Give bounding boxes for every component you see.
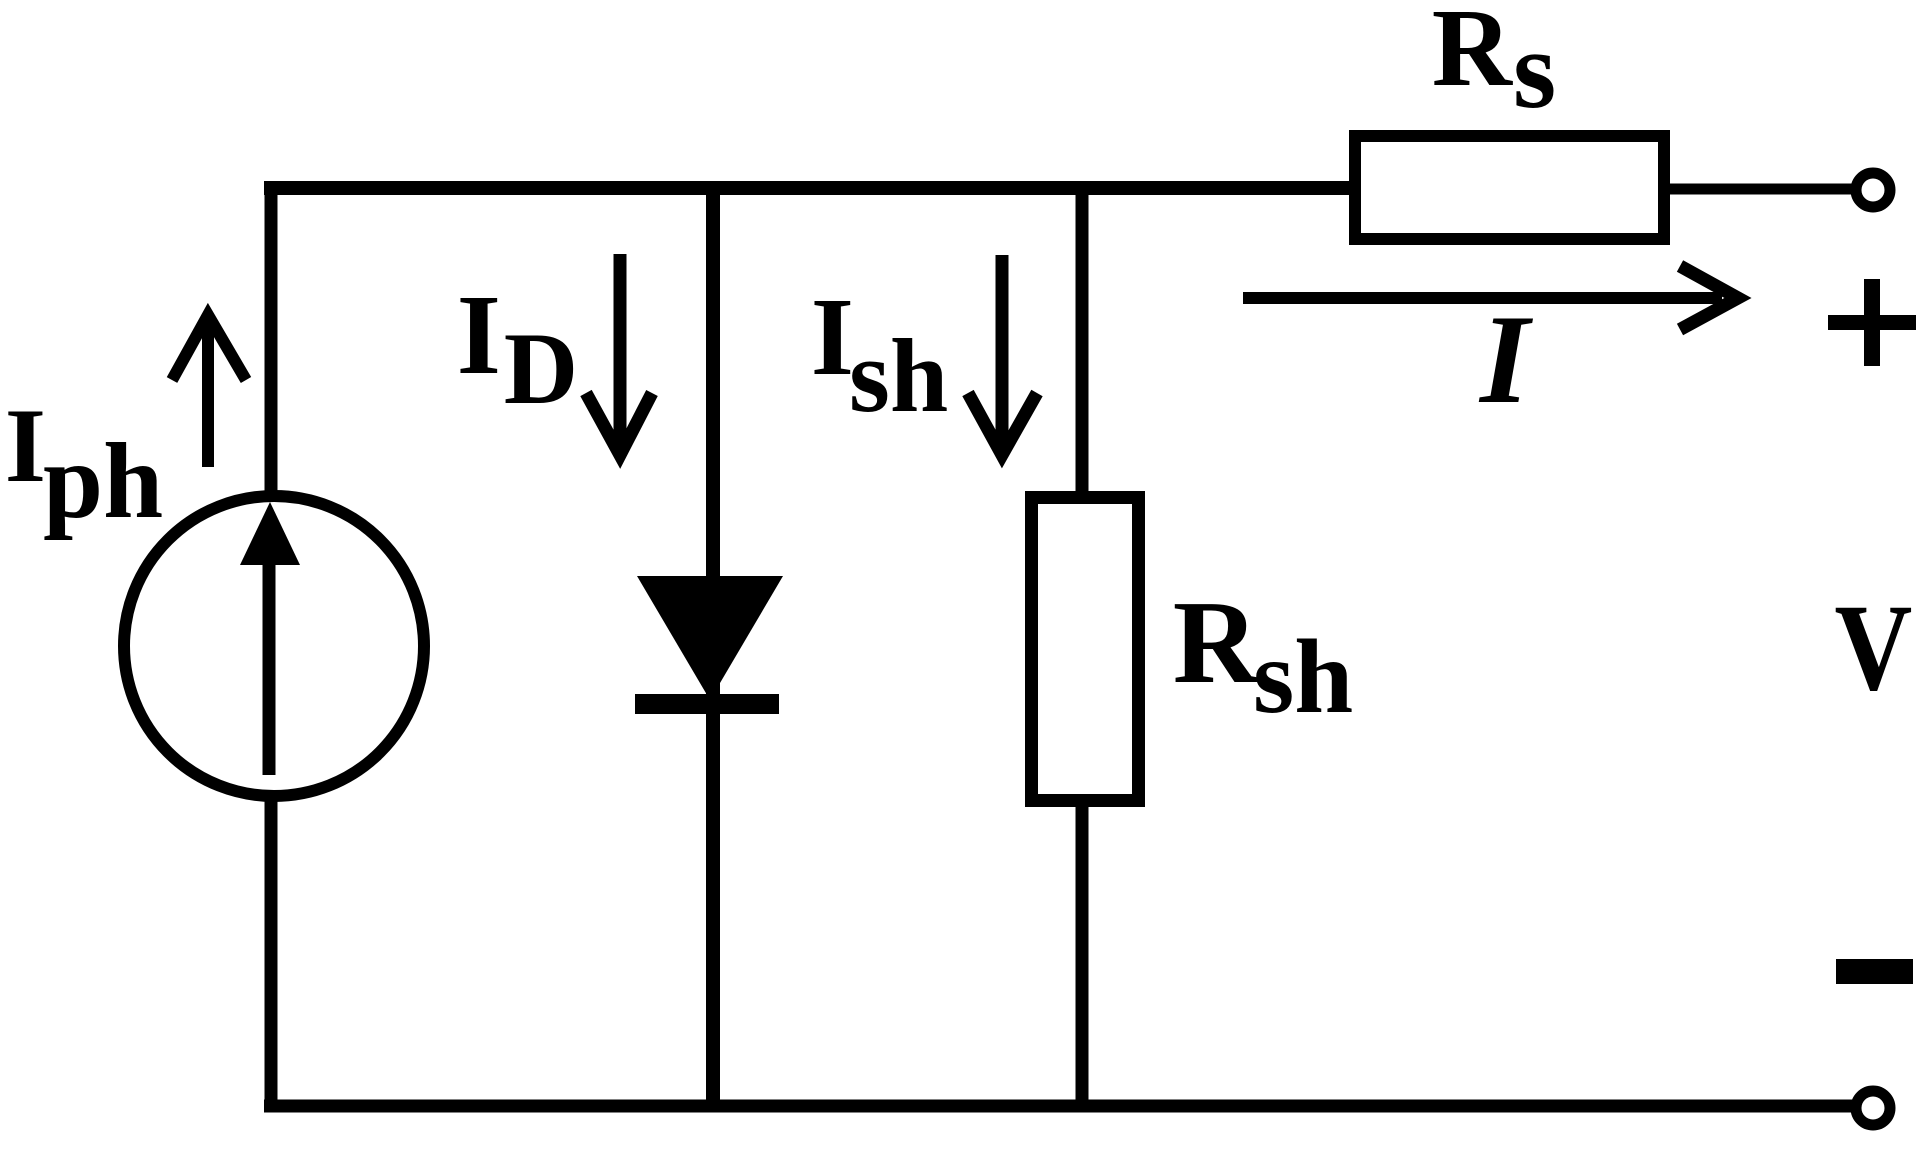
svg-text:R: R bbox=[1432, 0, 1514, 110]
svg-text:I: I bbox=[5, 387, 46, 504]
svg-text:sh: sh bbox=[849, 317, 948, 434]
plus sign bbox=[1828, 279, 1916, 366]
wire diode branch bbox=[706, 181, 720, 1112]
wire shunt branch bbox=[1076, 181, 1089, 1112]
svg-text:R: R bbox=[1173, 576, 1260, 708]
negative terminal bbox=[1856, 1091, 1890, 1125]
resistor R_s bbox=[1355, 136, 1664, 239]
svg-text:V: V bbox=[1835, 579, 1913, 717]
svg-text:s: s bbox=[1513, 9, 1556, 132]
current source I_ph circle bbox=[124, 496, 424, 796]
I_sh annotation arrow bbox=[968, 255, 1037, 456]
svg-text:I: I bbox=[811, 276, 854, 399]
I_ph annotation arrow bbox=[172, 315, 246, 467]
wire from Rs to positive terminal bbox=[1660, 184, 1853, 195]
svg-text:D: D bbox=[504, 312, 578, 426]
resistor R_sh bbox=[1032, 498, 1139, 801]
wire top bus from left node to Rs bbox=[264, 181, 1360, 195]
current source arrow bbox=[240, 502, 300, 775]
svg-text:I: I bbox=[457, 271, 501, 398]
output current I arrow bbox=[1243, 266, 1738, 330]
wire left branch lower bbox=[265, 798, 278, 1112]
diode D bbox=[635, 576, 783, 714]
svg-text:I: I bbox=[1478, 290, 1534, 430]
wire left branch upper bbox=[265, 181, 278, 495]
svg-text:ph: ph bbox=[43, 422, 163, 541]
svg-text:sh: sh bbox=[1253, 618, 1353, 735]
I_D annotation arrow bbox=[586, 254, 652, 456]
positive terminal bbox=[1856, 173, 1890, 207]
minus sign bbox=[1836, 959, 1913, 984]
wire bottom bus bbox=[264, 1100, 1853, 1113]
